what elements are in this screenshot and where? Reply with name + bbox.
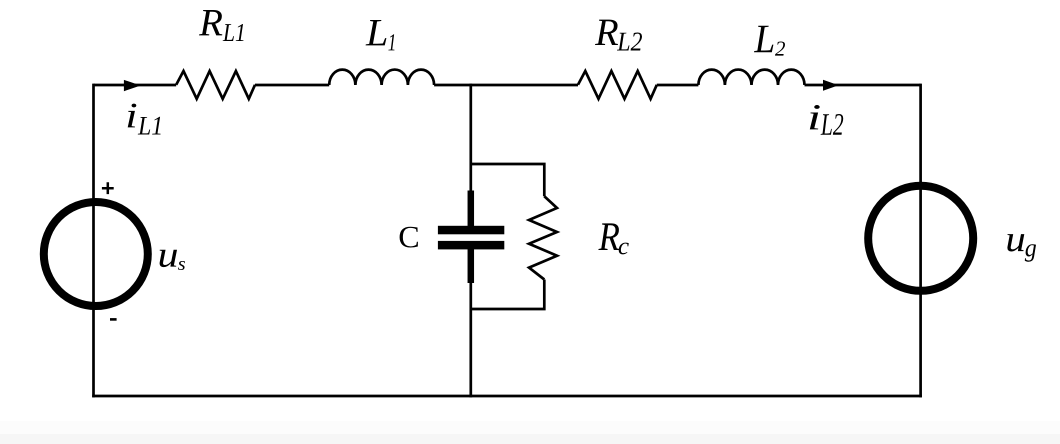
voltage source ug circle (868, 186, 973, 291)
plus sign of us (102, 182, 114, 194)
wire middle vertical above capacitor (469, 84, 472, 227)
label u_s (160, 250, 185, 270)
capacitor C bottom plate (438, 241, 504, 250)
label L_1 (366, 20, 395, 50)
wire bottom (92, 395, 922, 398)
voltage source us circle (44, 202, 148, 306)
wire between R_L1 and L_1 (255, 84, 329, 87)
capacitor C top plate (438, 226, 504, 235)
wire middle vertical below capacitor (469, 249, 472, 398)
wire top-left segment (94, 84, 177, 87)
minus sign of us (110, 318, 117, 321)
label R_L1 (199, 10, 244, 41)
label R_L2 (595, 20, 642, 51)
label u_g (1007, 234, 1036, 262)
current arrow iL2 (823, 80, 839, 91)
label i_L2 (810, 105, 843, 135)
capacitor C thick top lead (468, 191, 475, 228)
resistor R_L2 (578, 71, 657, 99)
wire branch from Rc bottom (471, 280, 545, 310)
label i_L1 (128, 104, 161, 135)
label C (400, 227, 418, 248)
wire branch to Rc top (471, 164, 545, 196)
wire between L_1 and node at top of C (434, 84, 578, 87)
capacitor C thick bottom lead (468, 249, 475, 284)
resistor Rc zigzag (529, 196, 557, 279)
resistor R_L1 (176, 71, 255, 99)
current arrow iL1 (124, 80, 141, 91)
wire between R_L2 and L_2 (657, 84, 699, 87)
inductor L1 (329, 70, 434, 85)
wire top-right segment (805, 84, 921, 87)
inductor L2 (698, 70, 804, 85)
wire left vertical (92, 84, 95, 398)
label R_c (598, 223, 628, 254)
wire right vertical (919, 84, 922, 398)
label L_2 (754, 26, 785, 56)
